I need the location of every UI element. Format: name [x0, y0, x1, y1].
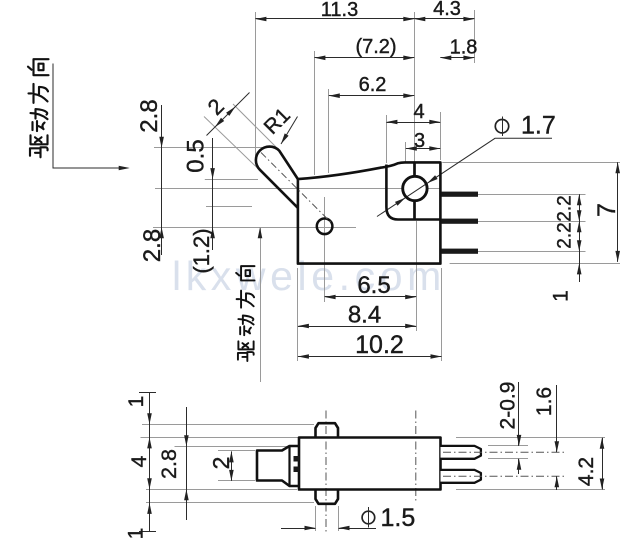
svg-text:4: 4	[128, 455, 151, 467]
svg-text:2.8: 2.8	[136, 99, 163, 132]
svg-text:10.2: 10.2	[355, 331, 404, 359]
svg-text:(1.2): (1.2)	[189, 228, 214, 273]
svg-text:1.6: 1.6	[533, 387, 556, 416]
svg-text:2-0.9: 2-0.9	[497, 382, 520, 430]
svg-text:1.8: 1.8	[450, 37, 478, 59]
svg-text:2.8: 2.8	[157, 449, 181, 479]
svg-text:4: 4	[413, 101, 424, 123]
svg-text:1: 1	[125, 528, 148, 540]
svg-text:6.2: 6.2	[359, 74, 387, 96]
svg-text:2.2: 2.2	[554, 195, 575, 221]
svg-text:4.3: 4.3	[433, 0, 461, 20]
svg-text:2: 2	[208, 457, 234, 470]
svg-text:2.8: 2.8	[139, 229, 166, 262]
svg-text:1.5: 1.5	[381, 504, 416, 532]
svg-text:1: 1	[125, 396, 148, 408]
svg-text:1: 1	[550, 290, 573, 302]
svg-text:8.4: 8.4	[348, 302, 381, 329]
svg-text:11.3: 11.3	[321, 0, 358, 21]
svg-text:6.5: 6.5	[357, 272, 390, 299]
svg-text:2.2: 2.2	[554, 222, 575, 248]
svg-text:7: 7	[593, 203, 621, 217]
svg-text:3: 3	[414, 130, 425, 152]
svg-text:(7.2): (7.2)	[355, 36, 396, 58]
svg-text:1.7: 1.7	[521, 112, 556, 140]
svg-text:4.2: 4.2	[575, 457, 598, 486]
svg-text:0.5: 0.5	[183, 139, 210, 172]
